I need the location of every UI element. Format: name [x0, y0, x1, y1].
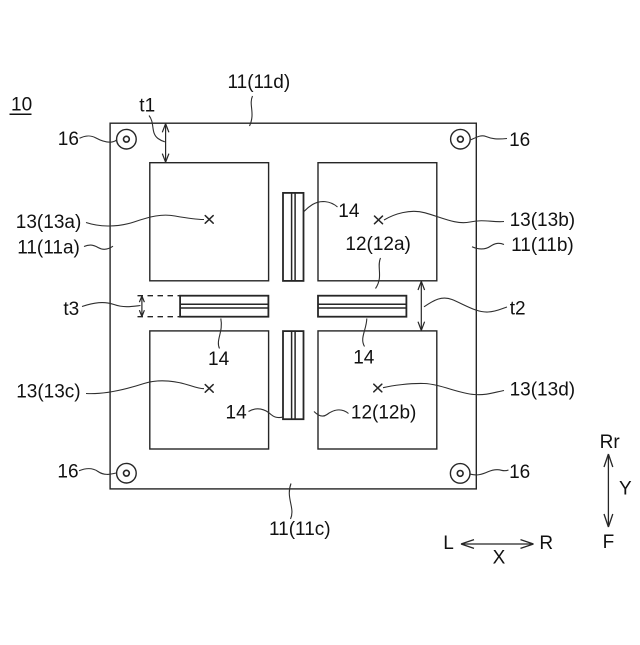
hole 16 bottom-right [450, 464, 470, 484]
svg-text:16: 16 [509, 462, 530, 483]
svg-text:16: 16 [58, 129, 79, 150]
svg-text:14: 14 [353, 348, 375, 369]
piezo element 13c square bottom-left [150, 331, 269, 449]
leader wire 13(13d) [383, 383, 504, 394]
axis arrow Y (Rr-F) [604, 454, 613, 527]
piezo element 13b square top-right [318, 163, 437, 281]
leader wire 13(13c) [86, 381, 204, 394]
slit 14 top vertical [283, 193, 304, 281]
svg-text:16: 16 [509, 130, 530, 151]
leader wire 14 left horizontal slit [218, 319, 221, 349]
hole 16 top-left [117, 129, 137, 149]
svg-text:11(11c): 11(11c) [269, 519, 331, 540]
axes arrows [461, 454, 613, 548]
leader wire 14 right horizontal slit [363, 319, 367, 347]
dimension arrow t3 [139, 296, 144, 317]
slit 14 bottom vertical [283, 331, 304, 419]
svg-text:t2: t2 [510, 299, 526, 320]
svg-text:t1: t1 [139, 96, 155, 117]
center mark x of 13a [205, 216, 213, 224]
svg-text:12(12a): 12(12a) [345, 234, 411, 255]
hole 16 bottom-left [117, 463, 137, 483]
leader wire 14 bottom slit [249, 409, 284, 418]
label 10 underline [10, 113, 32, 115]
svg-text:14: 14 [208, 349, 230, 370]
svg-text:13(13b): 13(13b) [510, 210, 575, 231]
svg-text:t3: t3 [63, 299, 79, 320]
dimension arrow t1 [162, 124, 169, 163]
leader wire 11(11a) [84, 245, 113, 249]
leader wire 12(12b) [314, 410, 349, 416]
svg-text:L: L [443, 533, 454, 554]
leader wire 16 bottom-right [471, 470, 509, 475]
dashed extension box t3 [138, 296, 181, 317]
svg-text:11(11b): 11(11b) [511, 235, 574, 256]
leader wire 13(13a) [86, 215, 204, 226]
slit 14 right horizontal [318, 296, 406, 317]
piezo element 13d square bottom-right [318, 331, 437, 449]
svg-text:X: X [493, 548, 506, 569]
svg-text:13(13c): 13(13c) [16, 381, 80, 402]
svg-text:Y: Y [619, 478, 632, 499]
svg-text:13(13d): 13(13d) [510, 379, 575, 400]
base plate 11 outline [110, 123, 476, 489]
leader wire 14 top slit [304, 202, 338, 212]
svg-text:10: 10 [11, 95, 32, 116]
leader wire 16 bottom-left [79, 469, 116, 475]
leader wire t1 [149, 116, 165, 142]
svg-text:13(13a): 13(13a) [16, 212, 82, 233]
leader wire t2 [424, 298, 507, 312]
leader wire 11(11d) [250, 96, 253, 126]
hole 16 top-right [451, 129, 471, 149]
leader wire 13(13b) [384, 211, 504, 222]
leader wire 16 top-right [471, 136, 507, 140]
center mark x of 13b [375, 216, 383, 224]
leader wire 11(11c) [289, 484, 292, 520]
axis arrow X (L-R) [461, 540, 534, 549]
svg-text:14: 14 [338, 201, 360, 222]
svg-text:Rr: Rr [600, 432, 621, 453]
center mark x of 13d [374, 384, 382, 392]
leader wire 12(12a) [376, 258, 381, 289]
svg-text:14: 14 [226, 403, 248, 424]
leader wire t3 [82, 303, 141, 307]
svg-text:12(12b): 12(12b) [351, 403, 417, 424]
dimension arrow t2 [418, 281, 425, 330]
svg-text:11(11a): 11(11a) [17, 238, 80, 259]
piezo element 13a square top-left [150, 163, 269, 281]
leader wire 16 top-left [80, 136, 117, 142]
svg-text:16: 16 [57, 462, 78, 483]
svg-text:F: F [603, 532, 615, 553]
center mark x of 13c [205, 385, 213, 393]
slit 14 left horizontal [180, 296, 268, 317]
svg-text:11(11d): 11(11d) [228, 72, 291, 93]
leader wire 11(11b) [472, 243, 504, 249]
svg-text:R: R [539, 533, 553, 554]
